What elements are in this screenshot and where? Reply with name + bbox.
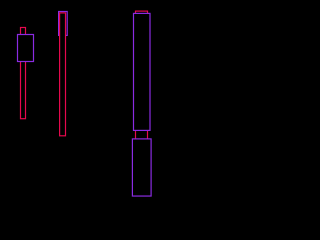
wire candle1 wick bbox=[21, 28, 26, 119]
wire candle2 wick bbox=[60, 13, 66, 136]
node candle1 body bbox=[18, 35, 34, 62]
node candle3 lower body bbox=[132, 139, 151, 196]
wire candle3 wick bbox=[136, 11, 148, 161]
node candle3 upper body bbox=[134, 13, 151, 130]
node candle2 body bbox=[59, 12, 68, 36]
